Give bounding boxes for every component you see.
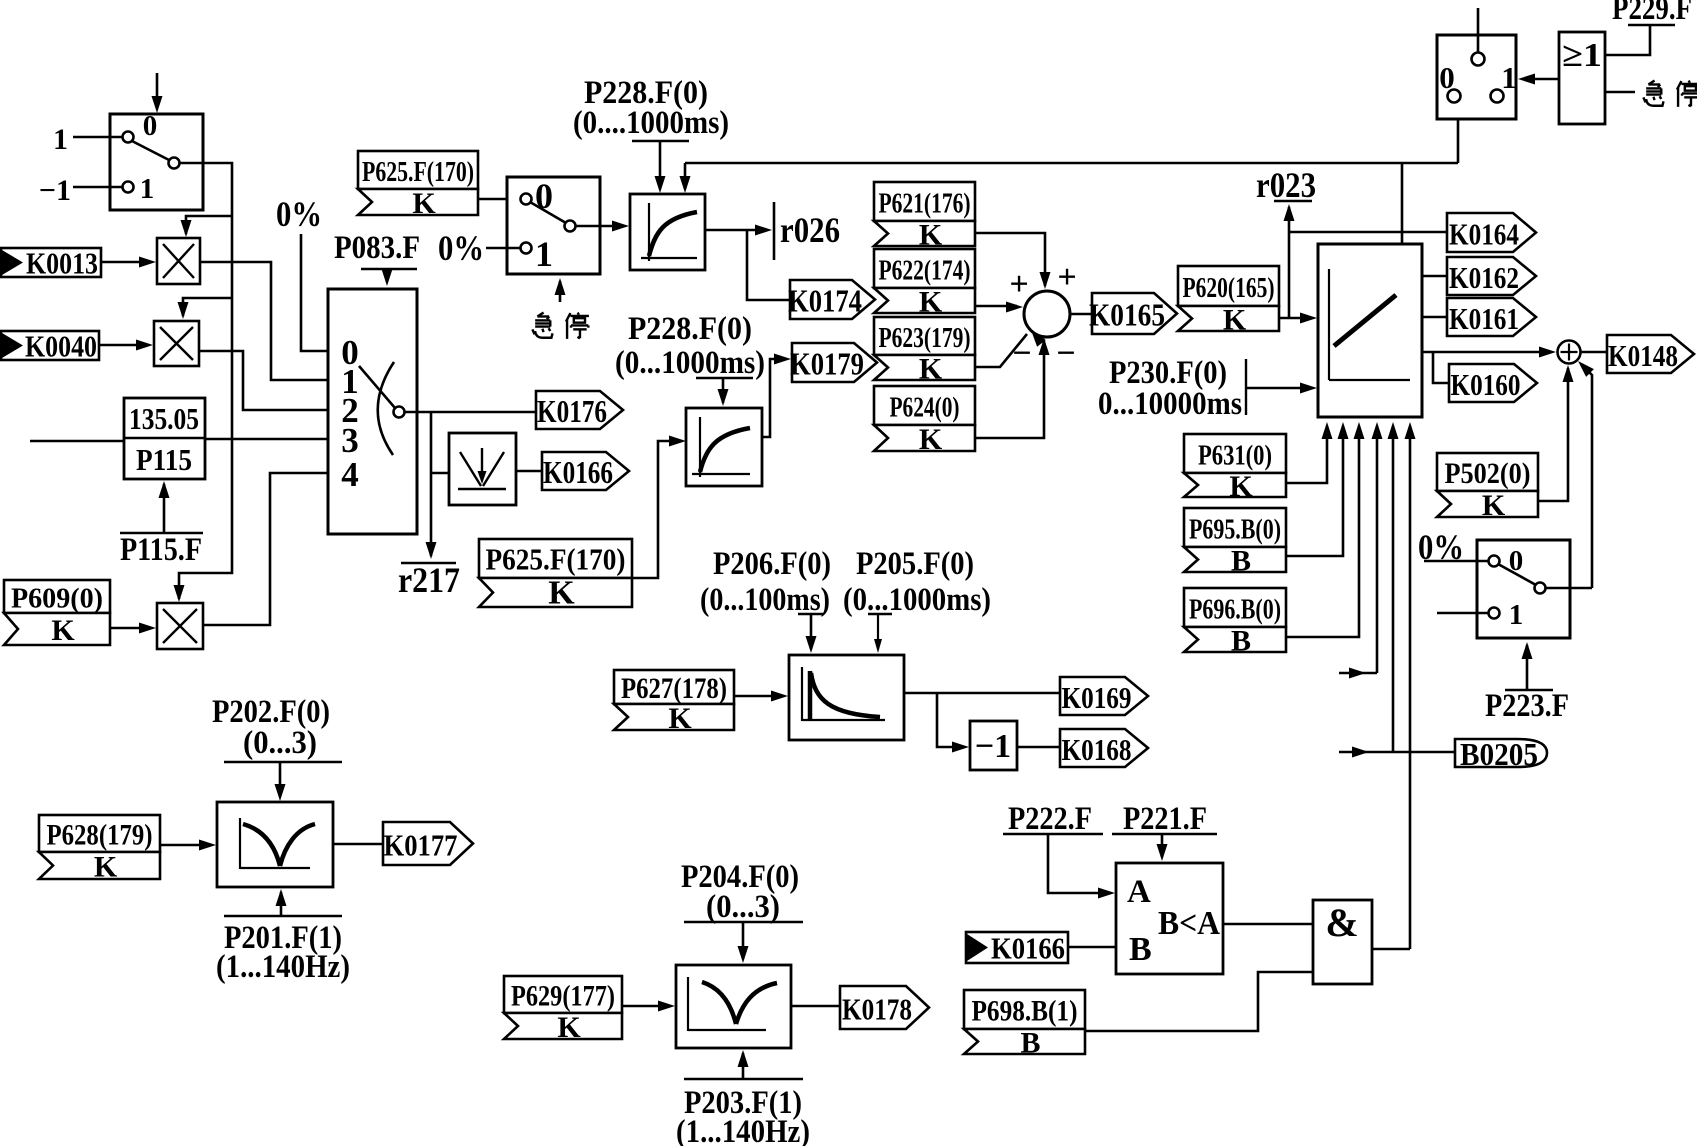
svg-text:−1: −1 [39, 174, 71, 207]
svg-text:B: B [1231, 625, 1251, 658]
svg-text:K0013: K0013 [26, 246, 98, 281]
svg-text:K: K [919, 423, 943, 456]
svg-text:P631(0): P631(0) [1198, 441, 1272, 472]
svg-text:P222.F: P222.F [1008, 801, 1092, 837]
svg-text:P696.B(0): P696.B(0) [1189, 595, 1281, 626]
svg-text:P625.F(170): P625.F(170) [486, 542, 626, 577]
svg-text:P229.F: P229.F [1612, 0, 1692, 27]
svg-text:r026: r026 [780, 210, 840, 250]
svg-text:K0174: K0174 [788, 283, 862, 319]
svg-text:B: B [1129, 931, 1152, 968]
svg-text:B<A: B<A [1158, 905, 1220, 942]
svg-text:−1: −1 [975, 728, 1011, 765]
svg-text:(0....1000ms): (0....1000ms) [573, 105, 729, 141]
svg-text:1: 1 [53, 123, 68, 156]
svg-text:P627(178): P627(178) [621, 672, 727, 705]
svg-text:0...10000ms: 0...10000ms [1098, 386, 1242, 422]
svg-text:K0164: K0164 [1449, 217, 1519, 252]
svg-text:K0148: K0148 [1608, 338, 1678, 373]
svg-text:P502(0): P502(0) [1445, 457, 1531, 490]
svg-text:K0166: K0166 [991, 931, 1065, 966]
svg-text:P221.F: P221.F [1123, 801, 1207, 837]
svg-text:(0...1000ms): (0...1000ms) [843, 582, 991, 618]
svg-text:K: K [919, 353, 943, 386]
svg-text:B: B [1020, 1027, 1040, 1060]
svg-text:0%: 0% [438, 228, 484, 268]
svg-text:K: K [1229, 470, 1253, 503]
svg-text:K0177: K0177 [384, 828, 458, 863]
svg-text:1: 1 [1509, 599, 1524, 631]
svg-text:+: + [1057, 259, 1076, 296]
svg-text:K: K [668, 702, 692, 735]
svg-text:K0166: K0166 [543, 454, 613, 490]
svg-text:&: & [1325, 900, 1358, 945]
svg-text:P623(179): P623(179) [879, 323, 971, 354]
svg-text:(0...100ms): (0...100ms) [700, 582, 830, 618]
svg-text:0%: 0% [276, 194, 322, 234]
svg-text:K0165: K0165 [1089, 297, 1165, 333]
svg-text:P205.F(0): P205.F(0) [856, 546, 974, 582]
svg-text:P609(0): P609(0) [11, 583, 103, 615]
svg-text:P083.F: P083.F [334, 230, 420, 266]
svg-text:P625.F(170): P625.F(170) [362, 157, 474, 188]
svg-text:r023: r023 [1256, 165, 1316, 205]
svg-text:K: K [51, 614, 75, 647]
svg-text:4: 4 [341, 455, 359, 494]
svg-text:K: K [919, 219, 943, 252]
svg-text:K0162: K0162 [1449, 260, 1519, 295]
svg-text:P695.B(0): P695.B(0) [1189, 515, 1281, 546]
svg-text:P620(165): P620(165) [1183, 273, 1275, 304]
svg-text:P115.F: P115.F [120, 532, 202, 568]
svg-text:−: − [1056, 335, 1075, 372]
svg-text:P698.B(1): P698.B(1) [972, 995, 1078, 1028]
svg-text:135.05: 135.05 [129, 401, 199, 436]
svg-text:(0...1000ms): (0...1000ms) [615, 345, 765, 381]
svg-text:K: K [412, 187, 436, 220]
svg-text:P115: P115 [136, 442, 192, 477]
svg-text:K: K [1223, 304, 1247, 337]
svg-text:P621(176): P621(176) [879, 189, 971, 220]
svg-text:(0...3): (0...3) [243, 725, 317, 761]
svg-text:P228.F(0): P228.F(0) [628, 311, 752, 347]
svg-text:≥1: ≥1 [1562, 37, 1602, 74]
svg-text:0: 0 [143, 110, 158, 142]
svg-text:P206.F(0): P206.F(0) [713, 546, 831, 582]
svg-text:P624(0): P624(0) [890, 393, 960, 424]
svg-text:K0176: K0176 [537, 393, 607, 429]
svg-text:1: 1 [1501, 60, 1517, 95]
svg-text:K0168: K0168 [1062, 732, 1132, 767]
svg-text:1: 1 [535, 234, 553, 274]
svg-text:K0161: K0161 [1449, 301, 1519, 336]
svg-text:1: 1 [140, 173, 155, 205]
svg-text:(0...3): (0...3) [706, 889, 780, 925]
svg-text:K: K [1482, 489, 1506, 522]
svg-text:K: K [548, 575, 575, 612]
svg-text:−: − [1012, 335, 1031, 372]
svg-text:K: K [557, 1011, 581, 1044]
svg-text:(1...140Hz): (1...140Hz) [676, 1114, 810, 1146]
svg-text:P622(174): P622(174) [879, 256, 971, 287]
svg-text:K0040: K0040 [25, 329, 97, 364]
svg-text:r217: r217 [398, 560, 460, 600]
svg-text:A: A [1127, 874, 1151, 910]
svg-text:P628(179): P628(179) [47, 819, 153, 852]
svg-text:P629(177): P629(177) [511, 980, 615, 1013]
svg-text:K0169: K0169 [1062, 680, 1132, 715]
svg-text:K: K [94, 851, 118, 884]
svg-text:+: + [1009, 266, 1028, 303]
svg-text:P223.F: P223.F [1485, 688, 1569, 724]
svg-text:K0160: K0160 [1451, 367, 1521, 402]
svg-text:(1...140Hz): (1...140Hz) [216, 949, 350, 985]
svg-text:K0179: K0179 [790, 346, 864, 382]
svg-text:K: K [919, 286, 943, 319]
svg-text:K0178: K0178 [842, 992, 912, 1027]
svg-text:B: B [1231, 545, 1251, 578]
svg-text:B0205: B0205 [1460, 736, 1538, 772]
